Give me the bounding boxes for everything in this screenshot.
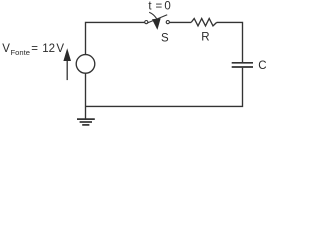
svg-text:R: R bbox=[201, 31, 209, 43]
svg-text:VFonte=12V: VFonte=12V bbox=[2, 43, 64, 57]
svg-text:S: S bbox=[161, 33, 169, 45]
svg-text:C: C bbox=[258, 60, 266, 72]
svg-text:t=0: t=0 bbox=[148, 1, 170, 13]
